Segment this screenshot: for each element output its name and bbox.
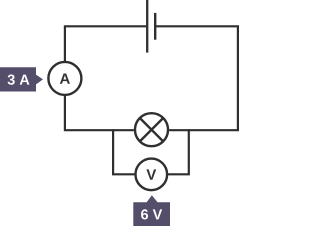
- lamp L1: [135, 113, 168, 146]
- ammeter A1: [48, 62, 81, 95]
- wire bottom-left segment and left side lower: [65, 96, 134, 131]
- cell long plate: [146, 0, 148, 53]
- wire voltmeter branch left: [113, 129, 135, 174]
- cell short plate: [154, 13, 156, 40]
- label 6 V flag: [133, 195, 170, 226]
- label 3 A flag: [0, 67, 43, 91]
- wire voltmeter branch right: [168, 129, 189, 174]
- voltmeter V1: [136, 159, 168, 191]
- wire top-left segment and left side upper: [65, 26, 146, 61]
- wire top-right, right side and bottom-right segment: [155, 26, 238, 130]
